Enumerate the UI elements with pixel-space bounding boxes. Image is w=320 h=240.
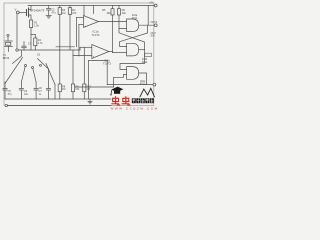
svg-text:4011: 4011 [142, 60, 148, 64]
svg-text:10k: 10k [106, 11, 111, 15]
svg-text:1M: 1M [62, 11, 66, 15]
svg-text:1M: 1M [62, 88, 65, 91]
svg-text:1.5k: 1.5k [34, 24, 40, 28]
svg-text:4.7k: 4.7k [38, 42, 43, 45]
svg-text:TL072: TL072 [92, 33, 100, 37]
svg-text:-: - [93, 47, 94, 50]
svg-text:BK05: BK05 [3, 56, 10, 60]
svg-text:WWW.CCDZW.COM: WWW.CCDZW.COM [111, 106, 159, 110]
svg-text:OUT1: OUT1 [151, 21, 158, 24]
svg-text:C3: C3 [28, 42, 32, 46]
svg-text:47u: 47u [51, 11, 56, 15]
svg-text:TL072: TL072 [103, 62, 111, 66]
svg-text:10u: 10u [24, 93, 29, 96]
svg-text:S1: S1 [37, 52, 41, 56]
svg-text:SIG: SIG [151, 35, 155, 38]
svg-text:V: V [15, 8, 17, 12]
svg-text:BF245A/TF: BF245A/TF [30, 9, 45, 13]
svg-text:10k: 10k [122, 11, 127, 15]
svg-text:47k: 47k [72, 11, 77, 15]
svg-text:4011: 4011 [132, 16, 138, 20]
svg-text:+9V: +9V [149, 2, 154, 5]
svg-text:-: - [85, 17, 86, 20]
svg-text:1M: 1M [87, 88, 90, 91]
svg-text:47u: 47u [8, 93, 13, 96]
svg-text:4011: 4011 [140, 82, 146, 85]
